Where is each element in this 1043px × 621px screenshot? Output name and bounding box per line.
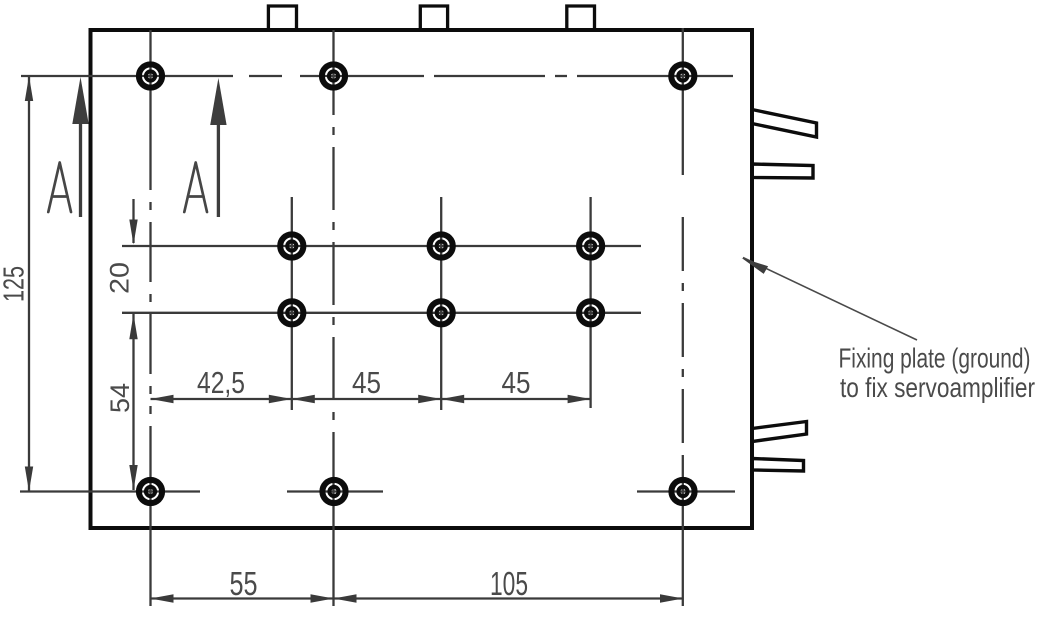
svg-text:Fixing plate (ground): Fixing plate (ground) bbox=[839, 343, 1031, 374]
mounting hole top-middle bbox=[322, 64, 345, 87]
svg-text:42,5: 42,5 bbox=[197, 365, 245, 400]
centerline vertical middle column x441 bbox=[440, 197, 442, 410]
mounting hole bottom-middle bbox=[322, 480, 345, 503]
svg-text:20: 20 bbox=[105, 262, 135, 294]
mounting hole mid row1 col3 bbox=[579, 234, 602, 257]
svg-text:45: 45 bbox=[352, 365, 381, 400]
centerline vertical middle column x291 bbox=[291, 197, 293, 410]
centerline horizontal top hole row bbox=[21, 75, 233, 77]
right hook 3 bbox=[752, 422, 807, 442]
dimension 125 line bbox=[28, 76, 30, 492]
mounting hole top-right bbox=[671, 64, 694, 87]
centerline horizontal bottom row middle bbox=[287, 490, 383, 492]
mounting hole mid row2 col2 bbox=[430, 301, 453, 324]
dimension 20 arrows bbox=[132, 199, 134, 243]
svg-text:105: 105 bbox=[490, 565, 528, 602]
centerline vertical column x333 bbox=[332, 30, 334, 115]
top tab 1 bbox=[268, 6, 296, 31]
right hook 2 bbox=[752, 164, 813, 178]
svg-text:to fix servoamplifier: to fix servoamplifier bbox=[840, 372, 1035, 403]
svg-text:55: 55 bbox=[230, 565, 258, 602]
section label A right bbox=[184, 163, 207, 213]
svg-text:45: 45 bbox=[502, 365, 531, 400]
centerline vertical middle column x590 bbox=[589, 197, 591, 408]
leader line to plate bbox=[743, 258, 917, 341]
centerline vertical column x683 bbox=[682, 28, 684, 175]
centerline horizontal bottom row left bbox=[20, 490, 200, 492]
fixing plate outline bbox=[91, 30, 753, 528]
mounting hole bottom-left bbox=[139, 480, 162, 503]
right hook 4 bbox=[752, 459, 804, 472]
top tab 2 bbox=[420, 6, 447, 31]
centerline vertical column x150 bbox=[149, 30, 151, 190]
section label A left bbox=[48, 163, 71, 213]
right hook 1 bbox=[752, 110, 817, 138]
centerline horizontal middle row 1 bbox=[122, 245, 641, 247]
mounting hole bottom-right bbox=[671, 480, 694, 503]
centerline horizontal middle row 2 bbox=[122, 312, 641, 314]
dimension 54 line bbox=[132, 314, 134, 490]
svg-text:125: 125 bbox=[0, 266, 31, 302]
centerline horizontal bottom row right bbox=[637, 490, 735, 492]
mounting hole mid row1 col2 bbox=[430, 234, 453, 257]
leader arrowhead bbox=[742, 258, 769, 274]
mounting hole top-left bbox=[139, 64, 162, 87]
top tab 3 bbox=[567, 6, 595, 31]
mounting hole mid row1 col1 bbox=[280, 234, 303, 257]
mounting hole mid row2 col3 bbox=[579, 301, 602, 324]
mounting hole mid row2 col1 bbox=[280, 301, 303, 324]
dimension line 42,5 / 45 / 45 bbox=[151, 398, 591, 400]
dimension line 55 / 105 bbox=[151, 597, 684, 599]
svg-text:54: 54 bbox=[105, 383, 135, 413]
section arrow A left bbox=[72, 77, 88, 217]
section arrow A right bbox=[210, 78, 226, 217]
